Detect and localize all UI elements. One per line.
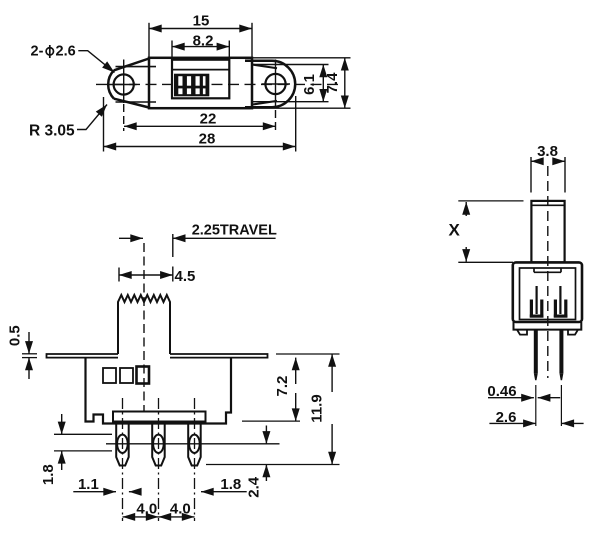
svg-text:2-: 2- (31, 43, 44, 59)
svg-text:15: 15 (193, 13, 210, 30)
svg-text:4.5: 4.5 (175, 268, 196, 285)
svg-text:22: 22 (200, 111, 217, 128)
svg-text:X: X (449, 221, 461, 240)
svg-text:7.2: 7.2 (274, 376, 291, 397)
svg-text:7.4: 7.4 (324, 72, 341, 94)
svg-text:8.2: 8.2 (193, 33, 214, 50)
svg-text:4.0: 4.0 (136, 501, 157, 518)
svg-text:R 3.05: R 3.05 (29, 123, 75, 140)
svg-text:0.46: 0.46 (487, 383, 516, 400)
svg-text:3.8: 3.8 (537, 143, 558, 160)
svg-text:1.1: 1.1 (78, 476, 99, 493)
svg-text:0.5: 0.5 (7, 325, 24, 346)
svg-text:11.9: 11.9 (309, 394, 326, 422)
svg-text:2.6: 2.6 (496, 409, 517, 426)
svg-text:2.25TRAVEL: 2.25TRAVEL (192, 223, 277, 239)
svg-text:2.4: 2.4 (245, 476, 262, 498)
svg-text:1.8: 1.8 (40, 464, 57, 485)
svg-text:6.1: 6.1 (301, 74, 318, 95)
svg-text:4.0: 4.0 (170, 501, 191, 518)
svg-text:28: 28 (199, 131, 216, 148)
svg-text:2.6: 2.6 (56, 43, 76, 59)
svg-text:1.8: 1.8 (220, 476, 241, 493)
